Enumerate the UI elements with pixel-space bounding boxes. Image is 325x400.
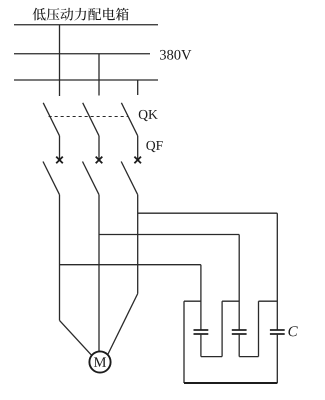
motor M (circle) <box>89 351 110 372</box>
wire: motor lead phase 3 (diagonal) <box>108 294 138 355</box>
bus L3 (380V busbar) <box>14 79 158 81</box>
wire: tap from bus L3 to QK pole 3 <box>137 80 139 95</box>
wire: capacitor feeder 3 vertical <box>276 213 278 330</box>
wire: capacitor feeder 1 vertical <box>200 265 202 330</box>
wire: branch from phase 2 to capacitor bank <box>99 234 239 236</box>
wire: delta stub left riser to feeder 1 <box>184 300 201 302</box>
wire: C2 U-turn bottom <box>239 356 258 358</box>
capacitor C3 plates <box>270 330 285 334</box>
wire: C2 bottom lead <box>238 334 240 357</box>
wire: phase 1 down from QF <box>59 195 61 321</box>
label QK <box>139 110 158 121</box>
knife switch QK pole 2 blade <box>83 103 99 136</box>
wire: C1 riser up <box>221 301 223 356</box>
breaker QF pole 3 blade <box>121 162 138 195</box>
title: distribution box label 低压动力配电箱 <box>33 8 129 21</box>
wire: C1 bottom lead <box>200 334 202 357</box>
wire: tap from bus L1 to QK pole 1 <box>59 25 61 96</box>
wire: delta stub riser1 to feeder 2 <box>222 300 239 302</box>
wire: capacitor feeder 2 vertical <box>238 235 240 331</box>
QK gang linkage (dashed) <box>49 116 128 118</box>
breaker QF pole 1 blade <box>43 162 60 195</box>
wire: delta stub riser2 to feeder 3 <box>259 300 278 302</box>
capacitor C1 plates <box>194 330 209 334</box>
wire: phase 3 down from QF <box>137 195 139 294</box>
knife switch QK pole 3 blade <box>121 103 137 136</box>
wire: motor lead phase 1 (diagonal) <box>60 320 93 356</box>
breaker QF contact 3 (x mark) <box>134 157 141 164</box>
knife switch QK pole 1 blade <box>43 103 59 136</box>
capacitor C2 plates <box>232 330 247 334</box>
wire: QK pole 3 to QF contact 3 <box>137 136 139 160</box>
label C <box>288 326 297 336</box>
wire: delta bottom bus <box>184 382 277 384</box>
label QF <box>146 141 162 152</box>
wire: C1 U-turn bottom <box>201 356 222 358</box>
motor letter M <box>94 357 106 367</box>
wire: C2 riser up <box>258 301 260 356</box>
wire: C3 bottom lead <box>276 334 278 383</box>
breaker QF contact 1 (x mark) <box>56 157 63 164</box>
wire: QK pole 2 to QF contact 2 <box>98 136 100 160</box>
wire: branch from phase 3 to capacitor bank <box>138 212 278 214</box>
wire: QK pole 1 to QF contact 1 <box>59 136 61 160</box>
bus L2 (380V busbar) <box>14 53 150 55</box>
breaker QF contact 2 (x mark) <box>96 157 103 164</box>
wire: tap from bus L2 to QK pole 2 <box>98 54 100 96</box>
wire: delta left riser <box>183 301 185 383</box>
label 380V <box>160 50 191 60</box>
wire: phase 2 down from QF <box>98 195 100 352</box>
bus L1 (380V busbar) <box>14 24 158 26</box>
breaker QF pole 2 blade <box>83 162 100 195</box>
wire: branch from phase 1 to capacitor bank <box>60 264 201 266</box>
